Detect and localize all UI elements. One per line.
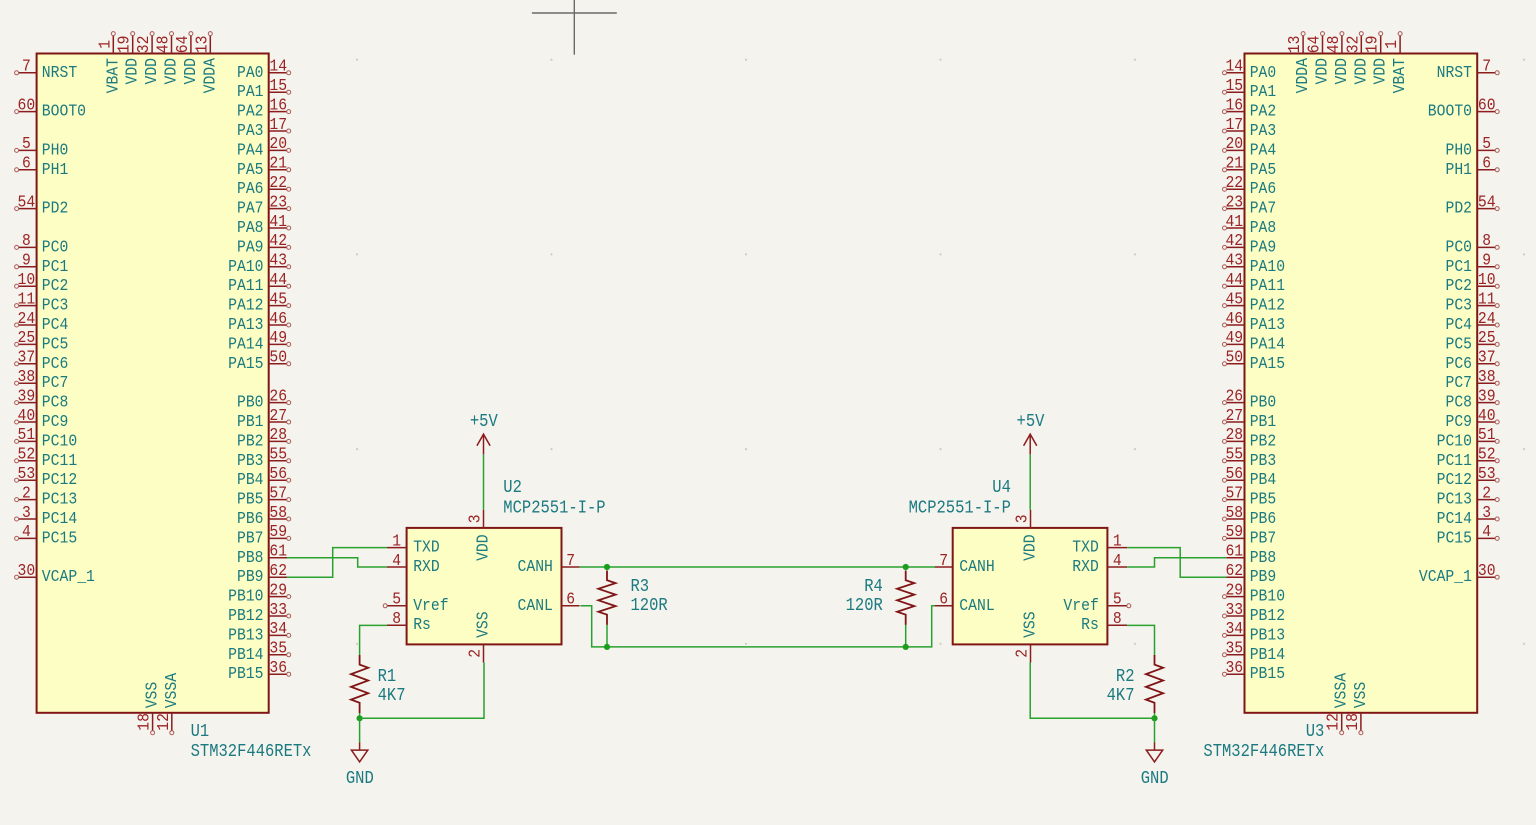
- U4 pin 3 (VDD) top: [1013, 510, 1040, 561]
- svg-text:PB5: PB5: [1250, 490, 1277, 509]
- svg-text:VSSA: VSSA: [162, 673, 181, 708]
- svg-text:PA0: PA0: [1250, 63, 1277, 82]
- svg-text:33: 33: [1225, 600, 1243, 619]
- svg-text:PA1: PA1: [237, 82, 264, 101]
- svg-text:U2: U2: [503, 478, 522, 498]
- U3 pin 53 (PC12) right: [1437, 464, 1500, 489]
- U3 pin 22 (PA6) left: [1223, 173, 1277, 198]
- U1 pin 25 (PC5) left: [15, 328, 69, 353]
- svg-text:26: 26: [1225, 386, 1243, 405]
- U4 pin 5 (Vref): [1063, 590, 1130, 615]
- svg-text:PB5: PB5: [237, 490, 264, 509]
- U1 pin 17 (PA3) right: [237, 115, 291, 140]
- U1 pin 4 (PC15) left: [15, 522, 78, 547]
- svg-text:43: 43: [269, 251, 287, 270]
- svg-text:7: 7: [566, 551, 575, 570]
- svg-text:PC3: PC3: [1446, 296, 1473, 315]
- U1 pin 36 (PB15) right: [228, 658, 291, 683]
- svg-text:PB10: PB10: [1250, 587, 1285, 606]
- U1 pin 37 (PC6) left: [15, 348, 69, 373]
- svg-text:PA6: PA6: [237, 179, 264, 198]
- U3 pin 30 (VCAP_1) right: [1419, 561, 1499, 586]
- svg-text:51: 51: [1478, 425, 1496, 444]
- wire U4 TXD to U3 PB9: [1127, 548, 1226, 578]
- U1 pin 40 (PC9) left: [15, 406, 69, 431]
- U1 pin 19 (VDD) top: [115, 32, 142, 85]
- svg-text:35: 35: [1225, 639, 1243, 658]
- svg-text:VDD: VDD: [142, 58, 161, 85]
- svg-text:28: 28: [1225, 425, 1243, 444]
- svg-text:4: 4: [1482, 522, 1491, 541]
- svg-text:34: 34: [269, 619, 287, 638]
- svg-text:52: 52: [1478, 445, 1496, 464]
- svg-text:RXD: RXD: [1072, 557, 1099, 576]
- svg-text:53: 53: [1478, 464, 1496, 483]
- svg-text:18: 18: [1343, 713, 1362, 731]
- svg-text:34: 34: [1225, 619, 1243, 638]
- svg-text:13: 13: [1285, 36, 1304, 54]
- svg-text:4K7: 4K7: [378, 686, 406, 706]
- U3 pin 18 (VSS) bottom: [1343, 682, 1370, 735]
- svg-text:42: 42: [269, 231, 287, 250]
- IC U1 body: [37, 54, 269, 713]
- U1 pin 33 (PB12) right: [228, 600, 291, 625]
- svg-text:PB13: PB13: [228, 625, 263, 644]
- svg-text:20: 20: [269, 134, 287, 153]
- U3 pin 28 (PB2) left: [1223, 425, 1277, 450]
- svg-text:PA12: PA12: [228, 296, 263, 315]
- svg-text:1: 1: [1113, 531, 1122, 550]
- svg-text:4: 4: [22, 522, 31, 541]
- svg-text:9: 9: [1482, 251, 1491, 270]
- U1 pin 46 (PA13) right: [228, 309, 291, 334]
- U1 pin 49 (PA14) right: [228, 328, 291, 353]
- svg-text:PD2: PD2: [42, 199, 69, 218]
- svg-text:25: 25: [18, 328, 36, 347]
- svg-text:PB4: PB4: [1250, 470, 1277, 489]
- U3 pin 62 (PB9) left: [1225, 561, 1276, 586]
- grid dots: [161, 59, 1525, 645]
- svg-text:49: 49: [269, 328, 287, 347]
- svg-text:50: 50: [269, 348, 287, 367]
- U1 pin 9 (PC1) left: [15, 251, 69, 276]
- svg-text:PB6: PB6: [237, 509, 264, 528]
- svg-text:37: 37: [1478, 348, 1496, 367]
- svg-text:PB12: PB12: [228, 606, 263, 625]
- svg-text:VCAP_1: VCAP_1: [42, 567, 95, 586]
- svg-text:PC15: PC15: [42, 528, 77, 547]
- svg-text:MCP2551-I-P: MCP2551-I-P: [909, 499, 1011, 519]
- svg-text:21: 21: [1225, 154, 1243, 173]
- svg-text:PA8: PA8: [1250, 218, 1277, 237]
- U1 pin 13 (VDDA) top: [192, 32, 219, 94]
- svg-text:2: 2: [1013, 649, 1032, 658]
- svg-text:38: 38: [1478, 367, 1496, 386]
- svg-text:PC2: PC2: [1446, 276, 1473, 295]
- U1 pin 27 (PB1) right: [237, 406, 291, 431]
- svg-text:VDD: VDD: [1371, 58, 1390, 85]
- U3 pin 16 (PA2) left: [1223, 95, 1277, 120]
- svg-text:10: 10: [1478, 270, 1496, 289]
- U1 pin 7 (NRST) left: [15, 57, 78, 82]
- U3 pin 17 (PA3) left: [1223, 115, 1277, 140]
- U4 pin 4 (RXD): [1072, 551, 1127, 576]
- U3 pin 7 (NRST) right: [1437, 57, 1500, 82]
- svg-text:PA2: PA2: [1250, 102, 1277, 121]
- svg-text:PC4: PC4: [1446, 315, 1473, 334]
- U3 pin 54 (PD2) right: [1446, 192, 1500, 217]
- svg-text:PB3: PB3: [237, 451, 264, 470]
- U1 pin 54 (PD2) left: [15, 192, 69, 217]
- svg-text:PA0: PA0: [237, 63, 264, 82]
- svg-text:3: 3: [466, 515, 485, 524]
- U3 pin 35 (PB14) left: [1223, 639, 1286, 664]
- U3 pin 40 (PC9) right: [1446, 406, 1500, 431]
- svg-text:8: 8: [1482, 231, 1491, 250]
- power +5V (left): [470, 412, 498, 510]
- junction CANL/R3: [604, 644, 610, 650]
- U3 pin 12 (VSSA) bottom: [1324, 673, 1351, 735]
- U3 pin 46 (PA13) left: [1223, 309, 1286, 334]
- svg-text:PA9: PA9: [237, 237, 264, 256]
- U3 pin 55 (PB3) left: [1223, 445, 1277, 470]
- wire CANL bus: [580, 606, 935, 647]
- svg-text:VDDA: VDDA: [200, 58, 219, 93]
- svg-text:PA15: PA15: [1250, 354, 1285, 373]
- U1 pin 39 (PC8) left: [15, 386, 69, 411]
- U1 pin 28 (PB2) right: [237, 425, 291, 450]
- svg-text:42: 42: [1225, 231, 1243, 250]
- U3 pin 4 (PC15) right: [1437, 522, 1500, 547]
- svg-text:PC2: PC2: [42, 276, 69, 295]
- svg-text:5: 5: [1482, 134, 1491, 153]
- U1 pin 58 (PB6) right: [237, 503, 291, 528]
- svg-text:PA8: PA8: [237, 218, 264, 237]
- svg-text:38: 38: [18, 367, 36, 386]
- svg-text:61: 61: [1225, 542, 1243, 561]
- svg-text:PA13: PA13: [228, 315, 263, 334]
- svg-text:PB15: PB15: [1250, 664, 1285, 683]
- U3 pin 24 (PC4) right: [1446, 309, 1500, 334]
- svg-text:PC1: PC1: [1446, 257, 1473, 276]
- U3 pin 41 (PA8) left: [1223, 212, 1277, 237]
- svg-text:52: 52: [18, 445, 36, 464]
- svg-text:64: 64: [173, 35, 192, 53]
- U4 pin 7 (CANH): [935, 551, 995, 576]
- svg-text:PC5: PC5: [42, 334, 69, 353]
- svg-text:PA4: PA4: [1250, 140, 1277, 159]
- U1 pin 50 (PA15) right: [228, 348, 291, 373]
- U3 pin 37 (PC6) right: [1446, 348, 1500, 373]
- svg-text:27: 27: [269, 406, 287, 425]
- svg-text:R4: R4: [864, 577, 883, 597]
- U3 pin 43 (PA10) left: [1223, 251, 1286, 276]
- U1 pin 24 (PC4) left: [15, 309, 69, 334]
- wire U2 VSS to junction: [360, 663, 484, 719]
- svg-text:STM32F446RETx: STM32F446RETx: [191, 742, 312, 762]
- wire R3 to CANL bus: [606, 625, 608, 647]
- svg-text:11: 11: [18, 289, 36, 308]
- svg-text:17: 17: [1225, 115, 1243, 134]
- svg-text:CANL: CANL: [518, 596, 553, 615]
- svg-text:15: 15: [1225, 76, 1243, 95]
- U3 pin 49 (PA14) left: [1223, 328, 1286, 353]
- svg-text:46: 46: [1225, 309, 1243, 328]
- U3 pin 64 (VDD) top: [1305, 32, 1332, 85]
- svg-text:8: 8: [1113, 609, 1122, 628]
- U1 pin 56 (PB4) right: [237, 464, 291, 489]
- svg-text:44: 44: [1225, 270, 1243, 289]
- U1 pin 61 (PB8) right: [237, 542, 287, 567]
- svg-text:56: 56: [1225, 464, 1243, 483]
- junction R2/VSS/GND: [1151, 715, 1157, 721]
- svg-text:VDD: VDD: [123, 58, 142, 85]
- svg-text:36: 36: [1225, 658, 1243, 677]
- U1 pin 48 (VDD) top: [154, 32, 181, 85]
- U1 pin 5 (PH0) left: [15, 134, 69, 159]
- svg-text:PC9: PC9: [1446, 412, 1473, 431]
- U3 pin 29 (PB10) left: [1223, 580, 1286, 605]
- svg-text:PA3: PA3: [1250, 121, 1277, 140]
- svg-text:VSSA: VSSA: [1332, 673, 1351, 708]
- svg-text:BOOT0: BOOT0: [42, 102, 86, 121]
- wire junction to GND: [1154, 718, 1156, 742]
- svg-text:59: 59: [269, 522, 287, 541]
- svg-text:12: 12: [154, 713, 173, 731]
- svg-text:PA5: PA5: [1250, 160, 1277, 179]
- U2 pin 3 (VDD) top: [466, 510, 493, 561]
- svg-text:PC13: PC13: [1437, 490, 1472, 509]
- svg-text:PB4: PB4: [237, 470, 264, 489]
- svg-text:1: 1: [392, 531, 401, 550]
- svg-text:PB15: PB15: [228, 664, 263, 683]
- svg-text:Rs: Rs: [413, 615, 431, 634]
- svg-text:PB9: PB9: [237, 567, 264, 586]
- ground GND (left): [346, 743, 374, 790]
- svg-text:40: 40: [1478, 406, 1496, 425]
- svg-text:PC14: PC14: [1437, 509, 1472, 528]
- U1 pin 59 (PB7) right: [237, 522, 291, 547]
- svg-text:25: 25: [1478, 328, 1496, 347]
- svg-text:4: 4: [392, 551, 401, 570]
- svg-text:21: 21: [269, 154, 287, 173]
- U3 pin 13 (VDDA) top: [1285, 32, 1312, 94]
- svg-text:PA12: PA12: [1250, 296, 1285, 315]
- svg-text:PA7: PA7: [237, 199, 264, 218]
- U2 pin 7 (CANH): [518, 551, 580, 576]
- svg-text:58: 58: [1225, 503, 1243, 522]
- U3 pin 21 (PA5) left: [1223, 154, 1277, 179]
- svg-text:Rs: Rs: [1081, 615, 1099, 634]
- svg-text:30: 30: [1478, 561, 1496, 580]
- U1 pin 38 (PC7) left: [15, 367, 69, 392]
- svg-text:56: 56: [269, 464, 287, 483]
- svg-text:6: 6: [939, 590, 948, 609]
- svg-text:16: 16: [1225, 95, 1243, 114]
- svg-text:PA3: PA3: [237, 121, 264, 140]
- svg-text:RXD: RXD: [413, 557, 440, 576]
- svg-text:6: 6: [1482, 154, 1491, 173]
- svg-text:PA6: PA6: [1250, 179, 1277, 198]
- svg-text:19: 19: [1363, 36, 1382, 54]
- svg-text:CANL: CANL: [959, 596, 994, 615]
- svg-text:PB1: PB1: [1250, 412, 1277, 431]
- U3 pin 14 (PA0) left: [1223, 57, 1277, 82]
- U3 pin 39 (PC8) right: [1446, 386, 1500, 411]
- svg-text:PB8: PB8: [237, 548, 264, 567]
- svg-text:2: 2: [466, 649, 485, 658]
- U1 pin 20 (PA4) right: [237, 134, 291, 159]
- svg-text:PA10: PA10: [1250, 257, 1285, 276]
- ground GND (right): [1141, 743, 1169, 790]
- svg-text:4: 4: [1113, 551, 1122, 570]
- U1 pin 22 (PA6) right: [237, 173, 291, 198]
- svg-text:3: 3: [1013, 515, 1032, 524]
- U4 pin 6 (CANL): [935, 590, 995, 615]
- junction CANL/R4: [903, 644, 909, 650]
- svg-text:MCP2551-I-P: MCP2551-I-P: [503, 499, 605, 519]
- svg-text:32: 32: [134, 36, 153, 54]
- svg-text:VDD: VDD: [162, 58, 181, 85]
- svg-text:PA5: PA5: [237, 160, 264, 179]
- svg-text:23: 23: [1225, 192, 1243, 211]
- svg-text:PB14: PB14: [228, 645, 263, 664]
- U2 pin 1 (TXD): [387, 531, 440, 556]
- U2 pin 5 (Vref): [383, 590, 448, 615]
- U3 pin 38 (PC7) right: [1446, 367, 1500, 392]
- svg-text:7: 7: [939, 551, 948, 570]
- U3 pin 27 (PB1) left: [1223, 406, 1277, 431]
- svg-text:8: 8: [392, 609, 401, 628]
- svg-text:1: 1: [1382, 40, 1401, 49]
- svg-text:PA7: PA7: [1250, 199, 1277, 218]
- svg-text:PH1: PH1: [42, 160, 69, 179]
- svg-text:PC12: PC12: [1437, 470, 1472, 489]
- svg-text:55: 55: [1225, 445, 1243, 464]
- svg-text:41: 41: [1225, 212, 1243, 231]
- svg-text:120R: 120R: [846, 596, 883, 616]
- U1 pin 12 (VSSA) bottom: [154, 673, 181, 735]
- wire junction to GND: [359, 718, 361, 742]
- U3 pin 9 (PC1) right: [1446, 251, 1500, 276]
- svg-text:R3: R3: [631, 577, 650, 597]
- U4 pin 1 (TXD): [1072, 531, 1127, 556]
- U3 pin 2 (PC13) right: [1437, 483, 1500, 508]
- svg-text:PC0: PC0: [42, 237, 69, 256]
- cursor crosshair: [532, 0, 617, 55]
- svg-text:PB9: PB9: [1250, 567, 1277, 586]
- svg-text:PC9: PC9: [42, 412, 69, 431]
- svg-text:12: 12: [1324, 713, 1343, 731]
- U3 pin 60 (BOOT0) right: [1428, 95, 1499, 120]
- svg-text:PB14: PB14: [1250, 645, 1285, 664]
- svg-text:PA9: PA9: [1250, 237, 1277, 256]
- svg-text:13: 13: [192, 36, 211, 54]
- svg-text:33: 33: [269, 600, 287, 619]
- U1 pin 51 (PC10) left: [15, 425, 78, 450]
- svg-text:45: 45: [1225, 289, 1243, 308]
- U3 pin 3 (PC14) right: [1437, 503, 1500, 528]
- svg-text:PA4: PA4: [237, 140, 264, 159]
- U3 pin 51 (PC10) right: [1437, 425, 1500, 450]
- U3 pin 58 (PB6) left: [1223, 503, 1277, 528]
- U3 pin 25 (PC5) right: [1446, 328, 1500, 353]
- wire R4 to CANL bus: [905, 625, 907, 647]
- junction CANH/R4: [903, 564, 909, 570]
- svg-text:35: 35: [269, 639, 287, 658]
- svg-text:9: 9: [22, 251, 31, 270]
- svg-text:PB1: PB1: [237, 412, 264, 431]
- resistor R1: [351, 655, 368, 718]
- svg-text:VDD: VDD: [1021, 534, 1040, 561]
- svg-text:VSS: VSS: [1351, 682, 1370, 709]
- svg-text:VSS: VSS: [143, 682, 162, 709]
- U1 pin 41 (PA8) right: [237, 212, 291, 237]
- junction R1/VSS/GND: [357, 715, 363, 721]
- svg-text:PC0: PC0: [1446, 237, 1473, 256]
- wire U4 VSS to junction: [1030, 663, 1154, 719]
- svg-text:PH0: PH0: [1446, 140, 1473, 159]
- svg-text:PC14: PC14: [42, 509, 77, 528]
- svg-text:27: 27: [1225, 406, 1243, 425]
- svg-text:PC8: PC8: [1446, 393, 1473, 412]
- svg-text:VSS: VSS: [474, 611, 493, 638]
- svg-text:PC1: PC1: [42, 257, 69, 276]
- svg-text:PC3: PC3: [42, 296, 69, 315]
- svg-text:PA1: PA1: [1250, 82, 1277, 101]
- svg-text:PC10: PC10: [42, 431, 77, 450]
- svg-text:PC6: PC6: [42, 354, 69, 373]
- U2 pin 2 (VSS) bottom: [466, 611, 493, 662]
- U1 pin 53 (PC12) left: [15, 464, 78, 489]
- svg-text:59: 59: [1225, 522, 1243, 541]
- svg-text:Vref: Vref: [1063, 596, 1098, 615]
- U1 pin 2 (PC13) left: [15, 483, 78, 508]
- U1 pin 64 (VDD) top: [173, 32, 200, 85]
- svg-text:120R: 120R: [631, 596, 668, 616]
- resistor R3: [598, 571, 615, 625]
- U1 pin 62 (PB9) right: [237, 561, 287, 586]
- wire U1 PB9 to U2 TXD: [287, 548, 387, 578]
- svg-text:NRST: NRST: [1437, 63, 1472, 82]
- svg-text:62: 62: [1225, 561, 1243, 580]
- svg-text:20: 20: [1225, 134, 1243, 153]
- svg-text:19: 19: [115, 36, 134, 54]
- U3 pin 57 (PB5) left: [1223, 483, 1277, 508]
- U1 pin 45 (PA12) right: [228, 289, 291, 314]
- svg-text:PC7: PC7: [1446, 373, 1473, 392]
- U1 pin 44 (PA11) right: [228, 270, 291, 295]
- svg-text:30: 30: [18, 561, 36, 580]
- svg-text:2: 2: [22, 483, 31, 502]
- svg-text:7: 7: [1482, 57, 1491, 76]
- svg-text:VDD: VDD: [474, 534, 493, 561]
- U1 pin 60 (BOOT0) left: [15, 95, 86, 120]
- U1 pin 26 (PB0) right: [237, 386, 291, 411]
- svg-text:4K7: 4K7: [1107, 686, 1135, 706]
- svg-text:62: 62: [269, 561, 287, 580]
- U1 pin 32 (VDD) top: [134, 32, 161, 85]
- svg-text:PB2: PB2: [1250, 431, 1277, 450]
- svg-text:U4: U4: [992, 478, 1011, 498]
- power +5V (right): [1017, 412, 1045, 510]
- svg-text:44: 44: [269, 270, 287, 289]
- svg-text:48: 48: [1324, 36, 1343, 54]
- svg-text:PH1: PH1: [1446, 160, 1473, 179]
- svg-text:24: 24: [1478, 309, 1496, 328]
- svg-text:36: 36: [269, 658, 287, 677]
- svg-text:PA14: PA14: [1250, 334, 1285, 353]
